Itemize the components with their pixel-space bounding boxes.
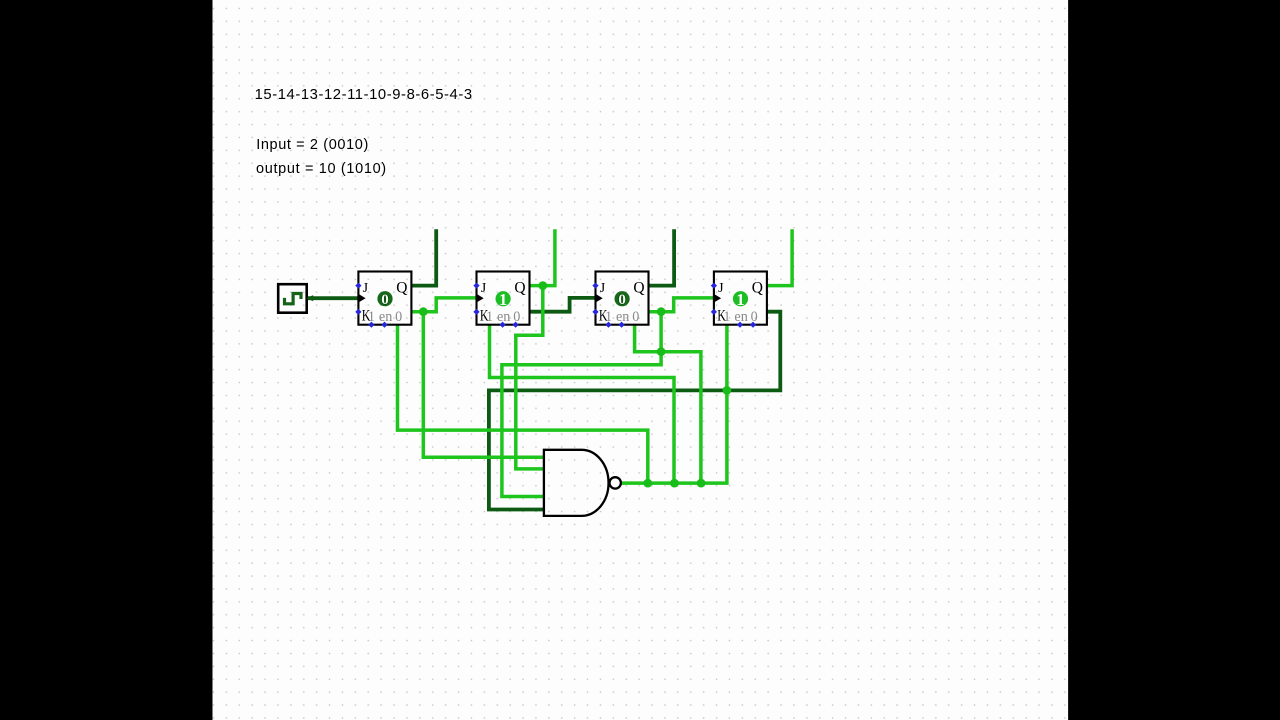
svg-text:0: 0 — [751, 309, 758, 325]
junction output rail 1 — [643, 479, 652, 488]
U4 pin dot K — [711, 309, 717, 315]
U1 pin dot bottom 1 — [368, 322, 374, 328]
U2 pin dot K — [473, 309, 479, 315]
U1 pin dot J — [355, 282, 361, 288]
wire clock to FF1 clk — [307, 296, 358, 300]
svg-text:Q: Q — [396, 280, 407, 297]
junction FF2 Q — [538, 281, 547, 290]
clock box — [278, 284, 307, 313]
wire FF2 Q right and up — [530, 229, 555, 285]
junction output rail 2 — [670, 479, 679, 488]
U1 pin dot K — [355, 309, 361, 315]
U2 clock triangle — [477, 294, 484, 303]
U1 pin dot bottom en — [381, 322, 387, 328]
junction FF1 Qbar — [419, 307, 428, 316]
wire NAND output rail to FF4 pin 1 — [621, 325, 727, 484]
wire FF1 Q up — [411, 229, 436, 285]
U4 pin dot bottom en — [737, 322, 743, 328]
U1 clock triangle — [358, 294, 365, 303]
svg-text:Q: Q — [514, 280, 525, 297]
JK flip-flop U2 box — [477, 272, 530, 325]
svg-text:Q: Q — [752, 280, 763, 297]
U4 pin dot bottom 0 — [750, 322, 756, 328]
simulator canvas — [213, 0, 1069, 720]
svg-text:0: 0 — [513, 309, 520, 325]
wire FF2 Q down to NAND input 2 — [516, 286, 545, 469]
wire FF3 Qbar to FF4 clk — [648, 298, 713, 312]
JK flip-flop U3 box — [596, 272, 649, 325]
clock waveform glyph — [285, 294, 302, 304]
svg-text:J: J — [718, 281, 724, 296]
svg-text:0: 0 — [632, 309, 639, 325]
svg-text:J: J — [363, 281, 369, 296]
wire NAND output branch to FF1 pin 0 — [398, 325, 648, 484]
svg-text:J: J — [481, 281, 487, 296]
wire FF3 Qbar down to NAND input 3 — [502, 312, 661, 497]
U2 pin dot bottom en — [499, 322, 505, 328]
clock output arrow — [306, 295, 313, 301]
junction output rail 3 — [697, 479, 706, 488]
svg-text:J: J — [600, 281, 606, 296]
U2 state circle — [496, 291, 511, 306]
svg-text:15-14-13-12-11-10-9-8-6-5-4-3: 15-14-13-12-11-10-9-8-6-5-4-3 — [255, 87, 473, 103]
svg-text:1: 1 — [736, 290, 744, 309]
wire FF2 Qbar to FF3 clk — [530, 298, 595, 312]
wire FF4 Q right and up — [767, 229, 792, 285]
svg-text:0: 0 — [395, 309, 402, 325]
U3 state circle — [615, 291, 630, 306]
NAND gate U5 bubble — [610, 477, 621, 488]
svg-text:en: en — [379, 309, 392, 325]
svg-text:1: 1 — [486, 309, 493, 325]
svg-text:1: 1 — [723, 309, 730, 325]
svg-text:output = 10 (1010): output = 10 (1010) — [256, 161, 387, 177]
wire FF1 Qbar down to NAND input 1 — [423, 312, 545, 458]
U1 state circle — [377, 291, 392, 306]
wire FF1 Qbar to FF2 clk — [411, 298, 476, 312]
junction FF3 Qbar — [657, 307, 666, 316]
wire NAND output branch to FF2 pin 1 — [490, 325, 675, 484]
grid dots — [213, 0, 1069, 720]
svg-text:1: 1 — [499, 290, 507, 309]
svg-text:en: en — [734, 309, 747, 325]
junction FF4 pin1 on dark rail — [723, 386, 732, 395]
JK flip-flop U1 box — [358, 272, 411, 325]
svg-text:Q: Q — [633, 280, 644, 297]
svg-text:en: en — [616, 309, 629, 325]
U4 pin dot J — [711, 282, 717, 288]
wire FF3 Q up — [648, 229, 674, 285]
U2 pin dot J — [473, 282, 479, 288]
U4 state circle — [733, 291, 748, 306]
U3 clock triangle — [596, 294, 603, 303]
U3 pin dot K — [592, 309, 598, 315]
svg-text:Input = 2 (0010): Input = 2 (0010) — [256, 137, 369, 153]
U3 pin dot bottom en — [618, 322, 624, 328]
U3 pin dot J — [592, 282, 598, 288]
U4 clock triangle — [714, 294, 721, 303]
U3 pin dot bottom 1 — [605, 322, 611, 328]
NAND gate U5 body — [544, 450, 609, 516]
wire FF4 Qbar to NAND input 4 — [489, 312, 780, 510]
JK flip-flop U4 box — [714, 272, 767, 325]
wire NAND output branch to FF3 pin 0 — [635, 325, 701, 484]
svg-text:en: en — [497, 309, 510, 325]
svg-text:0: 0 — [381, 292, 389, 308]
U2 pin dot bottom 0 — [512, 322, 518, 328]
junction FF3 en rail — [657, 347, 666, 356]
svg-text:0: 0 — [618, 292, 626, 308]
